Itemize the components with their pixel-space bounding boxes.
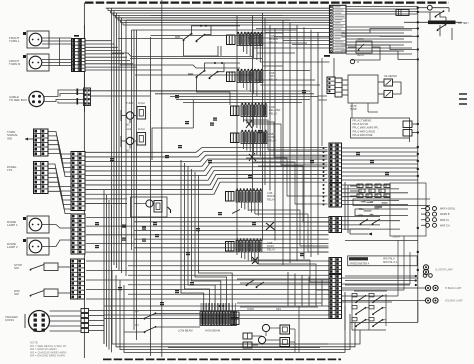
accessory box A1 (396, 10, 409, 16)
dome lamp 2 (23, 238, 49, 255)
svg-text:HORN: HORN (247, 308, 254, 311)
svg-text:RES: RES (276, 308, 281, 311)
connector J3 (34, 162, 49, 194)
wires below combs R3 R4 and actuator (244, 117, 261, 162)
label R4 (268, 132, 277, 142)
wires LB1 to trunk (410, 60, 418, 142)
svg-text:RELAY: RELAY (267, 197, 276, 201)
svg-text:CLUSTER LAMP: CLUSTER LAMP (435, 269, 453, 272)
wire bus verticals left bundle (112, 8, 137, 340)
headlight switch SW3 (352, 291, 387, 330)
svg-text:RELAY: RELAY (357, 54, 365, 57)
svg-text:FLSH: FLSH (138, 127, 145, 131)
junction dots above C5 (219, 305, 225, 307)
comb connector R6 (226, 238, 262, 252)
connector J4 (71, 152, 85, 211)
svg-text:TURN: TURN (126, 101, 133, 105)
connector J12 (329, 258, 342, 274)
comb connector R4 (231, 130, 267, 144)
wires dome lamps to connector J5 (42, 225, 71, 247)
wires below comb R1 and actuator (244, 46, 261, 129)
connector J7 pigtails (81, 309, 104, 333)
svg-text:LAMP 2: LAMP 2 (7, 245, 18, 249)
wires below comb R5 and actuator (232, 202, 275, 230)
svg-text:IND: IND (7, 136, 13, 140)
label dome lamps (7, 220, 18, 249)
note text block (30, 341, 66, 358)
svg-text:HAZ: HAZ (126, 127, 132, 131)
ignition harness cluster (345, 182, 426, 239)
legend box LB1 (351, 118, 413, 138)
label F1 (458, 22, 469, 25)
wire horn leads (418, 8, 449, 12)
wire verticals left bundle (104, 190, 112, 352)
trunk wire vertical x237 (236, 15, 238, 255)
wire corner below K relays (152, 100, 193, 160)
svg-text:LAMP 1: LAMP 1 (7, 223, 18, 227)
connector J10 (329, 183, 342, 207)
label R6 (267, 241, 276, 251)
connector P1b mini (84, 88, 91, 106)
cluster lamp (423, 265, 453, 275)
wire right loop bundle (342, 12, 453, 59)
wire band J6 to J13 (86, 261, 329, 299)
label front turn lamps (9, 36, 21, 66)
trunk wire vertical x418 (417, 8, 419, 322)
wire verticals center lower (181, 160, 232, 311)
connector J8 firewall (324, 5, 346, 57)
connector J1 (72, 39, 86, 72)
label R5 (267, 191, 276, 201)
svg-text:TURN R: TURN R (9, 62, 21, 66)
svg-text:HIGH BEAM: HIGH BEAM (205, 329, 221, 333)
wire band J4 to J9 (85, 148, 328, 204)
beam select contact SW4a (130, 311, 156, 320)
connector J6 (71, 259, 85, 299)
svg-text:MKR A SIGNL: MKR A SIGNL (440, 208, 456, 211)
svg-text:PPL-A LT WIRING: PPL-A LT WIRING (353, 119, 372, 122)
wire F1 leads (404, 21, 462, 23)
svg-text:HOLDING LAMP: HOLDING LAMP (445, 300, 463, 303)
wire band strips to right trunk (341, 148, 418, 229)
label R2 (269, 71, 278, 81)
wire bottom nested bundle (112, 270, 360, 352)
harness boundary dashed line top (85, 1, 449, 3)
trunk wire vertical x150 (150, 37, 152, 356)
resistor blocks bottom (280, 325, 290, 347)
hi beam indicator lamps (425, 285, 462, 303)
wire band upper center (112, 15, 330, 240)
label R3 (269, 105, 281, 115)
svg-text:SW: SW (14, 266, 19, 270)
mini connectors bottom (231, 312, 239, 325)
front turn signal lamp 1 (23, 31, 49, 48)
wires meter box to LB1 (170, 97, 378, 119)
svg-text:SPD PNL-P A: SPD PNL-P A (383, 261, 398, 264)
wires comb R2 to R3 (244, 58, 328, 146)
wires below comb R6 and actuator (242, 252, 259, 264)
wires lamps to connector J1 (42, 38, 72, 66)
page fold line x162 (161, 0, 163, 357)
stop light switch SW1 (30, 263, 71, 271)
wires connector J1 to vertical bundle (85, 41, 162, 70)
svg-text:TURN L: TURN L (9, 39, 20, 43)
hairpin wire loops (345, 199, 430, 241)
svg-text:MKR CL: MKR CL (440, 219, 450, 222)
svg-text:PPL-D MKR CLRNCE: PPL-D MKR CLRNCE (353, 131, 376, 133)
connector J13 (329, 275, 342, 319)
label connector J2 (7, 130, 18, 140)
dimmer switch SW2 (30, 289, 71, 297)
wires bottom center band (156, 279, 330, 348)
buzzer relay K3 (131, 197, 171, 217)
wire verticals center x252-265 (253, 13, 266, 241)
label trailer connector (5, 315, 19, 322)
marker relay contacts G1 (175, 25, 240, 56)
svg-text:LOW BEAM: LOW BEAM (178, 329, 193, 333)
junction dots right trunk (417, 7, 419, 272)
wires trailer connector to J7 (50, 311, 82, 331)
wires P1b to trunk (85, 85, 238, 112)
svg-text:TO REF BOX: TO REF BOX (9, 98, 27, 102)
svg-text:PPL-E MKR DOME: PPL-E MKR DOME (353, 135, 373, 137)
beam select contact SW4b (124, 324, 156, 333)
comb connector R1 (227, 32, 263, 46)
label SW1 (14, 263, 22, 270)
horn H1 (427, 5, 432, 10)
svg-text:OIL METER: OIL METER (384, 75, 397, 78)
wires J13 to right area (342, 236, 418, 302)
wires J8 to right trunk (346, 7, 418, 55)
wire stub above J1 (74, 25, 85, 85)
svg-text:HORN: HORN (357, 39, 364, 41)
headlamp comb connector C5 (200, 303, 236, 326)
staircase wires to right strips (243, 120, 329, 290)
horn relay box H2 (348, 39, 380, 64)
ignition switch contacts (435, 10, 447, 31)
meter box M1 (335, 75, 401, 111)
label C5 (178, 329, 221, 333)
svg-text:MKR CH: MKR CH (440, 224, 450, 227)
svg-text:WARN B: WARN B (440, 213, 450, 216)
svg-text:PUMP: PUMP (350, 108, 357, 111)
label R1 (269, 34, 278, 44)
wire band lower center (86, 218, 329, 253)
svg-text:SPEEDOMETER A: SPEEDOMETER A (350, 262, 370, 265)
label SW2 (14, 289, 20, 296)
arrow mark left of J2 (25, 138, 34, 141)
label cable P1 (9, 95, 27, 102)
label K2 (126, 127, 145, 131)
connector J11 (329, 217, 342, 233)
svg-text:SPD PNL A: SPD PNL A (383, 257, 395, 260)
svg-text:CONN: CONN (5, 318, 14, 322)
connector J5 (71, 214, 85, 254)
svg-text:HI BEAM LAMP: HI BEAM LAMP (445, 287, 462, 290)
junction dots below LB2 (345, 275, 417, 286)
page reference marks (459, 94, 467, 104)
svg-text:LTS: LTS (7, 168, 12, 172)
dome lamp 1 (23, 216, 49, 233)
horn relay coils (258, 324, 269, 343)
comb connector R2 (227, 69, 263, 83)
relay contacts bottom center (246, 280, 264, 288)
comb connector R5 (226, 188, 262, 202)
label connector J3 (7, 165, 17, 172)
wire band bottom to J13 (104, 306, 329, 319)
marker relay contacts G2 (188, 62, 240, 92)
cable connector P1 4-pin (29, 89, 84, 107)
harness boundary vertical left (83, 3, 85, 358)
flasher relay K2 (121, 133, 146, 153)
label K1 (126, 101, 145, 105)
svg-text:FLSH: FLSH (138, 101, 145, 105)
wire verticals center x283-318 (203, 20, 322, 312)
wire top bus bundle (106, 8, 330, 25)
wire J8 bottom stub (333, 58, 335, 77)
flasher relay K1 (121, 107, 146, 127)
indicator lamp cluster (421, 207, 456, 228)
aux connector boxes bottom (243, 306, 299, 352)
svg-text:J BOX: J BOX (392, 235, 400, 239)
fusible link F1 (428, 21, 456, 25)
svg-text:W4 = ENGINE WIRE HARN: W4 = ENGINE WIRE HARN (30, 354, 65, 358)
harness boundary dashed line bottom (103, 358, 341, 360)
connector J9 (329, 143, 342, 183)
lamp pair small top (423, 274, 432, 278)
comb connector R3 (231, 103, 267, 117)
wire code marks (95, 90, 389, 305)
labels bottom cluster (247, 308, 281, 311)
instrument legend box LB2 (348, 256, 418, 266)
connector J8b (327, 77, 335, 94)
svg-text:PPL-B IGN SW: PPL-B IGN SW (353, 124, 370, 126)
connector J2 (34, 129, 49, 156)
junction dots at strip rows (323, 147, 325, 206)
svg-text:SW: SW (14, 292, 19, 296)
front turn signal lamp 2 (23, 54, 49, 71)
trailer connector P2 8-pin (25, 311, 50, 332)
svg-text:PPL-C MKR LAMPS PPL: PPL-C MKR LAMPS PPL (353, 127, 380, 130)
wires J2 J3 to J4 (48, 132, 71, 214)
wires SW3 area (342, 288, 426, 330)
